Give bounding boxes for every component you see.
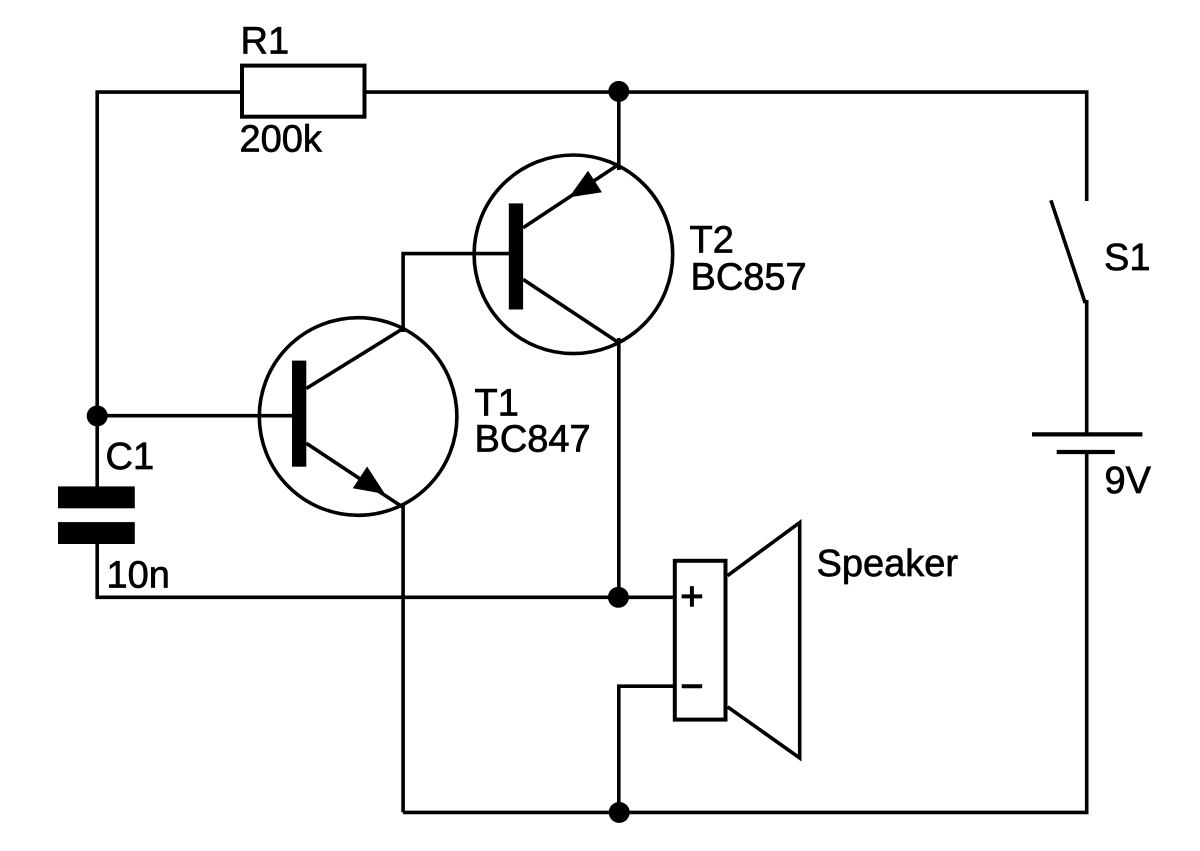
svg-text:200k: 200k bbox=[240, 119, 323, 161]
svg-text:S1: S1 bbox=[1104, 237, 1150, 279]
svg-text:BC847: BC847 bbox=[475, 418, 591, 460]
svg-text:R1: R1 bbox=[241, 21, 290, 63]
svg-text:Speaker: Speaker bbox=[817, 543, 959, 585]
svg-text:C1: C1 bbox=[106, 436, 155, 478]
svg-text:BC857: BC857 bbox=[691, 256, 807, 298]
svg-text:10n: 10n bbox=[107, 555, 170, 597]
svg-text:9V: 9V bbox=[1105, 460, 1152, 502]
